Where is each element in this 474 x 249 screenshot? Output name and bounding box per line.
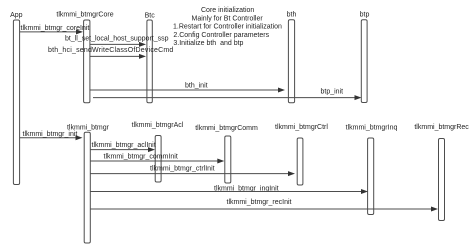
svg-text:tlkmmi_btmgr_commInit: tlkmmi_btmgr_commInit <box>104 154 178 161</box>
note Core initialization <box>173 7 282 47</box>
lifeline btp activation bar <box>361 20 367 103</box>
message tlkmmi_btmgr_coreInit <box>20 25 90 34</box>
message tlkmmi_btmgr_ctrlInit <box>90 166 295 177</box>
lifeline tlkmmi_btmgrAcl activation bar <box>155 136 161 183</box>
svg-text:tlkmmi_btmgrComm: tlkmmi_btmgrComm <box>195 125 258 132</box>
message bt_ll_set_local_host_support_ssp <box>65 36 169 47</box>
label tlkmmi_btmgrCtrl <box>275 124 328 131</box>
svg-text:tlkmmi_btmgr_recInit: tlkmmi_btmgr_recInit <box>227 199 292 206</box>
svg-text:tlkmmi_btmgr_ctrlInit: tlkmmi_btmgr_ctrlInit <box>150 166 215 173</box>
svg-text:btp_init: btp_init <box>321 89 344 96</box>
svg-text:tlkmmi_btmgr_aclInit: tlkmmi_btmgr_aclInit <box>92 142 156 149</box>
svg-text:bth_hci_sendWriteClassOfDevice: bth_hci_sendWriteClassOfDeviceCmd <box>48 47 174 54</box>
svg-text:Core initialization: Core initialization <box>201 7 254 14</box>
message btp_init <box>93 89 362 101</box>
svg-text:tlkmmi_btmgrAcl: tlkmmi_btmgrAcl <box>132 122 184 129</box>
message bth_hci_sendWriteClassOfDeviceCmd <box>48 47 174 59</box>
svg-text:tlkmmi_btmgr_init: tlkmmi_btmgr_init <box>23 131 78 138</box>
lifeline bth activation bar <box>288 20 294 103</box>
svg-text:2.Config Controller parameters: 2.Config Controller parameters <box>173 32 269 39</box>
svg-text:Mainly for Bt Controller: Mainly for Bt Controller <box>192 16 264 23</box>
label tlkmmi_btmgrInq <box>346 124 398 131</box>
lifeline tlkmmi_btmgr activation bar <box>84 132 90 243</box>
label tlkmmi_btmgrComm <box>195 125 258 132</box>
lifeline tlkmmi_btmgrRec activation bar <box>439 139 445 221</box>
svg-text:App: App <box>10 12 23 19</box>
svg-text:3.Initialize bth and btp: 3.Initialize bth and btp <box>173 40 243 47</box>
lifeline tlkmmi_btmgrCore activation bar <box>84 20 90 103</box>
message tlkmmi_btmgr_aclInit <box>90 142 155 152</box>
label tlkmmi_btmgr <box>67 125 110 132</box>
label tlkmmi_btmgrCore <box>56 11 113 18</box>
message tlkmmi_btmgr_recInit <box>90 199 438 212</box>
svg-text:tlkmmi_btmgrRec: tlkmmi_btmgrRec <box>414 124 469 131</box>
label Btc <box>145 12 156 19</box>
label btp <box>360 11 370 18</box>
message tlkmmi_btmgr_commInit <box>90 154 224 164</box>
label bth <box>287 11 297 18</box>
svg-text:bth: bth <box>287 11 297 18</box>
label App <box>10 12 23 19</box>
lifeline tlkmmi_btmgrCtrl activation bar <box>297 138 303 185</box>
svg-text:tlkmmi_btmgrCtrl: tlkmmi_btmgrCtrl <box>275 124 328 131</box>
svg-text:tlkmmi_btmgrCore: tlkmmi_btmgrCore <box>56 11 113 18</box>
lifeline App activation bar <box>13 20 19 185</box>
svg-text:btp: btp <box>360 11 370 18</box>
message tlkmmi_btmgr_init <box>20 131 83 140</box>
svg-text:bth_init: bth_init <box>185 83 208 90</box>
lifeline Btc activation bar <box>147 20 152 103</box>
message bth_init <box>90 83 285 93</box>
lifeline tlkmmi_btmgrInq activation bar <box>368 138 374 215</box>
label tlkmmi_btmgrRec <box>414 124 469 131</box>
svg-text:1.Restart for Controller initi: 1.Restart for Controller initialization <box>173 24 282 31</box>
svg-text:Btc: Btc <box>145 12 156 19</box>
label tlkmmi_btmgrAcl <box>132 122 184 129</box>
lifeline tlkmmi_btmgrComm activation bar <box>225 136 231 183</box>
svg-text:bt_ll_set_local_host_support_s: bt_ll_set_local_host_support_ssp <box>65 36 169 43</box>
message tlkmmi_btmgr_inqInit <box>90 186 368 195</box>
svg-text:tlkmmi_btmgrInq: tlkmmi_btmgrInq <box>346 124 398 131</box>
